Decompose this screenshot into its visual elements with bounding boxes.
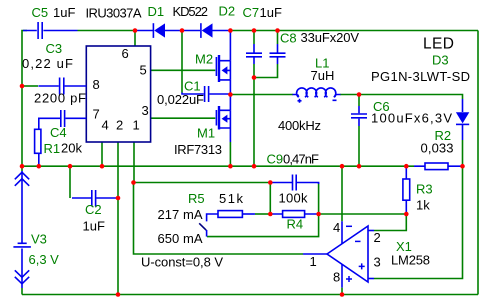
wire op-amp pin2 to R3 bottom node xyxy=(374,214,406,231)
wire C7 top stub xyxy=(253,31,255,45)
wire C6 stub top xyxy=(358,95,360,107)
resistor R3 xyxy=(403,166,410,214)
wire top bus right of M2 drain to right border xyxy=(230,30,478,32)
svg-text:1uF: 1uF xyxy=(83,219,105,234)
svg-text:217 mA: 217 mA xyxy=(158,207,203,222)
svg-text:U-const=0,8 V: U-const=0,8 V xyxy=(141,255,223,270)
svg-text:6: 6 xyxy=(122,46,129,61)
node D2-M2 drain xyxy=(228,28,233,33)
node C3 battery tap xyxy=(20,84,25,89)
capacitor C6 xyxy=(351,106,367,126)
capacitor C1 xyxy=(182,86,230,102)
svg-text:KD522: KD522 xyxy=(173,4,209,19)
node comp cap left xyxy=(268,180,273,185)
wire feedback node down and to op-amp output xyxy=(134,183,304,255)
node M1 source ground xyxy=(228,164,233,169)
capacitor C3 xyxy=(38,78,86,95)
node R3 bottom xyxy=(404,212,409,217)
node C2 right xyxy=(116,196,121,201)
transistor M1 xyxy=(216,95,230,143)
wire R4 right node to R3 bottom node xyxy=(319,213,407,215)
svg-text:M2: M2 xyxy=(195,52,213,67)
node C6 top xyxy=(357,92,362,97)
resistor R5 xyxy=(218,211,255,218)
node D1-D2 bootstrap xyxy=(180,28,185,33)
wire 650mA contact to R4 right node xyxy=(207,214,319,237)
node C7 ground xyxy=(252,164,257,169)
node R1 bottom xyxy=(37,164,42,169)
wire ground bus y=166 xyxy=(22,165,414,167)
svg-text:100k: 100k xyxy=(279,191,309,206)
wire C6 stub bottom xyxy=(358,126,360,166)
svg-text:1uF: 1uF xyxy=(260,5,282,20)
wire L1 to LED corner xyxy=(340,95,463,100)
node feedback xyxy=(131,180,136,185)
capacitor C8 xyxy=(270,44,286,64)
svg-text:8: 8 xyxy=(93,77,100,92)
svg-text:5: 5 xyxy=(140,63,147,78)
node pin6/top xyxy=(133,28,138,33)
svg-text:100uFx6,3V: 100uFx6,3V xyxy=(371,111,452,126)
wire SW node to L1 xyxy=(230,94,293,96)
svg-text:7: 7 xyxy=(93,107,100,122)
svg-text:0,22 uF: 0,22 uF xyxy=(22,56,73,71)
wire top-left corner + left vertical xyxy=(22,31,27,167)
node R2 right sense xyxy=(460,164,465,169)
svg-text:C2: C2 xyxy=(85,202,102,217)
svg-text:R3: R3 xyxy=(416,182,433,197)
svg-text:1: 1 xyxy=(133,118,140,133)
svg-text:8: 8 xyxy=(333,270,340,285)
svg-text:D2: D2 xyxy=(219,4,236,19)
node C6 ground xyxy=(357,164,362,169)
svg-text:C7: C7 xyxy=(243,5,260,20)
wire C8 top stub xyxy=(277,31,279,45)
wire IC pin3 to M1 gate xyxy=(151,117,216,119)
op-amp X1 xyxy=(303,226,374,282)
node pin2 bottom xyxy=(116,292,121,297)
wire IC pin1 vertical to feedback node xyxy=(133,142,135,183)
svg-text:0,033: 0,033 xyxy=(421,141,454,156)
wire battery V3 bottom corner xyxy=(21,288,23,295)
svg-text:2: 2 xyxy=(374,230,381,245)
svg-text:3: 3 xyxy=(142,103,149,118)
node pin4 ground xyxy=(100,164,105,169)
wire comp cap left down to R5/R4 node xyxy=(269,183,271,215)
inductor L1 xyxy=(293,88,341,103)
svg-text:C4: C4 xyxy=(50,125,67,140)
capacitor C4 xyxy=(39,110,87,129)
wire IC pin4 stub to ground bus xyxy=(101,142,103,166)
svg-text:C3: C3 xyxy=(46,41,63,56)
svg-text:IRU3037A: IRU3037A xyxy=(86,6,142,21)
capacitor C7 xyxy=(246,44,262,64)
capacitor C5 xyxy=(23,22,78,39)
svg-text:7uH: 7uH xyxy=(311,68,335,83)
wire C2 branch from ground bus xyxy=(69,166,71,198)
wire bootstrap vertical D1-D2 node down to C1 xyxy=(181,31,183,93)
wire M1 source to ground bus xyxy=(229,142,231,166)
diode D2 xyxy=(182,23,230,38)
svg-text:0,022uF: 0,022uF xyxy=(157,92,204,107)
svg-text:0,47nF: 0,47nF xyxy=(283,152,319,167)
svg-text:4: 4 xyxy=(102,118,109,133)
svg-text:D1: D1 xyxy=(148,4,165,19)
wire R5 right lead to node xyxy=(255,213,270,215)
wire sense node down to op-amp pin3 wire xyxy=(374,166,463,278)
svg-text:V3: V3 xyxy=(31,232,47,247)
wire top bus C5 to pin6 dot xyxy=(78,30,137,32)
capacitor C2 xyxy=(72,190,118,207)
resistor R4 xyxy=(271,211,319,218)
svg-text:R1: R1 xyxy=(44,141,61,156)
svg-text:3: 3 xyxy=(374,255,381,270)
svg-text:2: 2 xyxy=(116,118,123,133)
IC U1 IRU3037A box xyxy=(86,46,150,142)
svg-text:R4: R4 xyxy=(287,217,304,232)
svg-text:650 mA: 650 mA xyxy=(158,231,203,246)
switch S1 xyxy=(199,214,218,237)
node C2 branch xyxy=(68,164,73,169)
node bus-left xyxy=(20,164,25,169)
wire op-amp pin4 to ground bus xyxy=(341,166,343,221)
wire C8 bottom joins C7 xyxy=(254,64,278,78)
node C7 top xyxy=(252,28,257,33)
node R3 top xyxy=(404,164,409,169)
svg-text:M1: M1 xyxy=(197,126,215,141)
LED D3 xyxy=(456,99,469,140)
svg-text:400kHz: 400kHz xyxy=(278,118,321,133)
node op pin4 ground xyxy=(340,164,345,169)
svg-text:R5: R5 xyxy=(188,191,205,206)
wire comp cap right down to R4 right node xyxy=(318,184,320,215)
svg-text:LED: LED xyxy=(423,36,454,53)
resistor R1 xyxy=(35,129,41,166)
svg-text:1k: 1k xyxy=(416,198,430,213)
svg-text:4: 4 xyxy=(333,220,340,235)
resistor R2 xyxy=(414,163,461,170)
wire op-amp pin8 to bottom bus xyxy=(341,264,343,288)
svg-text:IRF7313: IRF7313 xyxy=(174,142,222,157)
node op pin8 bottom xyxy=(340,292,345,297)
node SW xyxy=(228,92,233,97)
svg-text:C8: C8 xyxy=(280,31,297,46)
node R4 right xyxy=(316,212,321,217)
transistor M2 xyxy=(216,31,230,95)
svg-text:D3: D3 xyxy=(432,53,449,68)
battery V3 xyxy=(13,171,31,288)
wire IC pin5 to M2 gate xyxy=(151,69,216,71)
wire battery plus to C3 stub xyxy=(22,85,38,87)
svg-text:C9: C9 xyxy=(267,152,284,167)
svg-text:1: 1 xyxy=(310,254,317,269)
svg-text:6,3 V: 6,3 V xyxy=(29,252,60,267)
wire right border xyxy=(477,31,479,295)
wire battery V3 top stub xyxy=(21,166,23,171)
wire C7 bottom to ground bus xyxy=(253,64,255,166)
svg-text:C5: C5 xyxy=(32,5,49,20)
diode D1 xyxy=(136,23,182,38)
svg-text:PG1N-3LWT-SD: PG1N-3LWT-SD xyxy=(371,69,470,84)
capacitor comp 100k row xyxy=(271,175,319,191)
svg-text:33uFx20V: 33uFx20V xyxy=(301,30,360,45)
node R5/R4 xyxy=(268,212,273,217)
svg-text:LM258: LM258 xyxy=(391,253,430,268)
node C8 top xyxy=(275,28,280,33)
wire feedback node to comp cap xyxy=(134,182,271,184)
svg-text:2200 pF: 2200 pF xyxy=(34,91,86,106)
svg-text:1uF: 1uF xyxy=(53,5,75,20)
node C7/C8 join xyxy=(252,75,257,80)
svg-text:20k: 20k xyxy=(61,141,82,156)
wire bottom bus xyxy=(22,294,478,296)
svg-text:51k: 51k xyxy=(219,191,244,206)
wire IC pin2 vertical to bottom bus xyxy=(117,142,119,295)
wire LED cathode down to R2 node xyxy=(462,140,464,166)
wire IC pin6 stub xyxy=(134,31,136,47)
